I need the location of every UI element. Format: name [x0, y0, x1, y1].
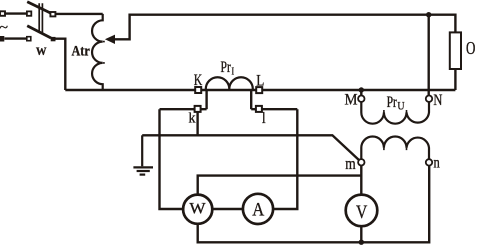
svg-text:A: A — [252, 199, 264, 220]
wire supply bottom — [5, 37, 27, 39]
terminal switch bottom-left — [27, 37, 31, 41]
svg-text:k: k — [189, 110, 196, 126]
load resistor O — [450, 32, 461, 69]
wire supply top — [5, 12, 26, 14]
svg-text:L: L — [256, 72, 264, 89]
wire Atr cusp ticks — [103, 42, 105, 63]
svg-text:n: n — [434, 155, 440, 172]
voltage transformer PrU secondary coil — [361, 137, 429, 160]
wire wattmeter voltage terminal to m drop — [198, 176, 362, 195]
wire M stub — [360, 90, 362, 96]
ground — [141, 135, 143, 166]
switch W top blade — [27, 2, 51, 14]
switch W crossbar — [39, 3, 42, 33]
svg-text:N: N — [433, 92, 442, 109]
terminal L — [256, 87, 262, 93]
wire k drop to ground line — [196, 112, 198, 135]
wire l to ammeter — [273, 109, 297, 209]
wire load bottom — [454, 69, 456, 90]
node V bottom junction dot — [359, 240, 364, 245]
wire N drop from top bus — [428, 15, 430, 96]
svg-text:O: O — [466, 38, 475, 58]
terminal K — [195, 87, 201, 93]
terminal n — [426, 159, 432, 165]
wire k line — [160, 108, 207, 110]
terminal switch top-left — [27, 11, 31, 15]
terminal k — [195, 106, 201, 112]
node top bus junction dot — [426, 12, 431, 17]
wire lower bus — [65, 89, 455, 91]
voltage transformer PrU primary coil — [361, 102, 429, 124]
svg-text:I: I — [232, 66, 235, 78]
terminal switch bottom-right — [51, 37, 56, 41]
wire bottom bus W to n — [198, 166, 430, 243]
wire PrU primary cusp ticks — [384, 110, 407, 113]
current transformer PrI secondary arcs — [206, 77, 253, 89]
svg-text:m: m — [345, 154, 355, 173]
svg-text:l: l — [262, 110, 266, 127]
wire PrU secondary cusp ticks — [384, 148, 407, 151]
autotransformer Atr coil — [92, 14, 103, 90]
svg-text:W: W — [189, 201, 206, 218]
svg-text:Pr: Pr — [221, 59, 232, 76]
wire k stub to bus — [205, 90, 207, 109]
svg-text:Pr: Pr — [387, 94, 398, 111]
wire wiper to top bus to load top — [114, 15, 456, 40]
wire wattmeter to ammeter — [213, 208, 244, 210]
terminal switch top-right — [50, 12, 55, 16]
terminal supply bottom-left — [0, 36, 4, 42]
voltmeter U3 — [346, 195, 378, 227]
svg-text:W: W — [36, 44, 47, 58]
wire switch bottom output to lower bus — [55, 39, 65, 90]
svg-text:U: U — [397, 99, 404, 113]
terminal N — [426, 96, 432, 102]
wire m drop to voltmeter — [360, 166, 362, 195]
wire l line — [251, 108, 297, 110]
wattmeter U1 — [183, 195, 212, 224]
terminal m — [358, 159, 364, 165]
terminal supply top-left — [0, 11, 5, 16]
wire switch top output to Atr top — [55, 13, 102, 15]
autotransformer wiper arrow — [105, 35, 115, 44]
ammeter U2 — [243, 194, 273, 224]
svg-text:~: ~ — [0, 20, 8, 35]
node M junction dot — [359, 87, 364, 92]
terminal M — [358, 96, 364, 102]
wire ground line to m — [142, 135, 359, 160]
wire voltmeter bottom — [360, 226, 362, 242]
wire k to wattmeter — [160, 109, 184, 209]
svg-text:M: M — [345, 92, 358, 109]
switch W bottom blade — [27, 26, 51, 38]
svg-text:K: K — [194, 72, 203, 89]
svg-text:V: V — [356, 202, 368, 223]
terminal l — [256, 106, 262, 112]
svg-text:Atr: Atr — [72, 44, 91, 60]
wire l stub to bus — [250, 90, 252, 109]
